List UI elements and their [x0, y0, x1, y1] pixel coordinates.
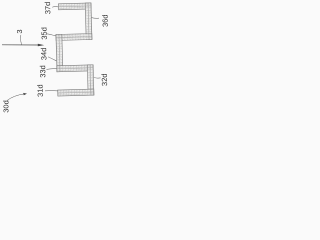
svg-text:3: 3	[15, 29, 24, 33]
svg-text:30d: 30d	[2, 100, 11, 113]
svg-text:35d: 35d	[40, 27, 49, 40]
svg-text:32d: 32d	[100, 73, 109, 86]
svg-text:36d: 36d	[100, 14, 109, 27]
svg-text:37d: 37d	[43, 2, 52, 15]
svg-text:31d: 31d	[36, 84, 45, 97]
svg-text:33d: 33d	[38, 65, 47, 78]
svg-text:34d: 34d	[39, 48, 48, 61]
